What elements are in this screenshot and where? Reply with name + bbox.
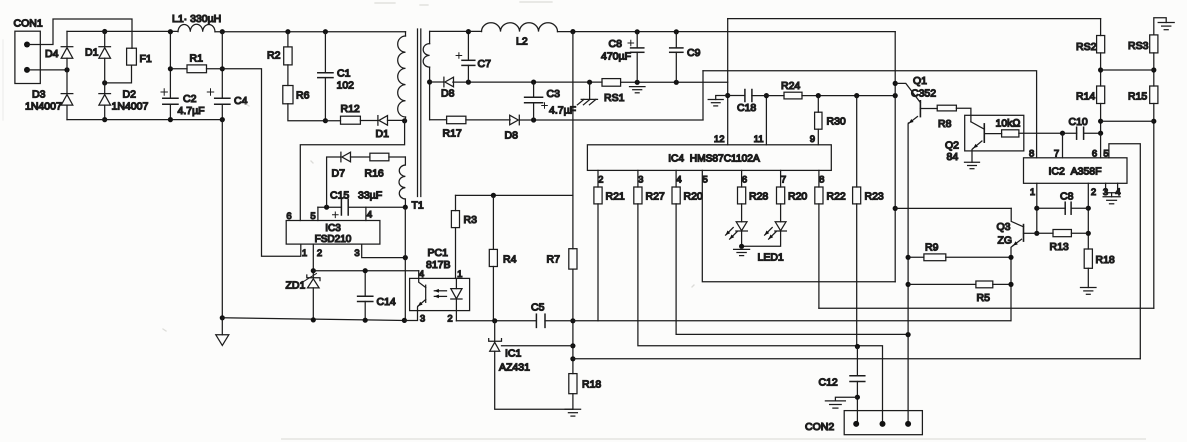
capacitor C1 102: [318, 32, 354, 124]
pin 8 resistor R22: [815, 170, 846, 308]
capacitor C3 4.7uF: [525, 82, 576, 120]
svg-text:R22: R22: [827, 191, 846, 203]
svg-text:C4: C4: [234, 95, 248, 107]
svg-text:C10: C10: [1069, 116, 1088, 128]
svg-text:CON2: CON2: [805, 421, 834, 433]
svg-text:L1· 330µH: L1· 330µH: [172, 13, 221, 25]
IC4 HMS87C1102A: [587, 145, 831, 171]
wire Q3 collector to spine: [895, 207, 1011, 209]
LED1 right: [742, 222, 787, 247]
svg-text:Q3: Q3: [997, 221, 1011, 233]
pin 12 wire IC4: [714, 19, 730, 145]
chassis ground at RS1: [577, 82, 597, 105]
svg-text:C8: C8: [609, 38, 623, 50]
optocoupler PC1 817B: [410, 247, 470, 311]
transistor Q2 84: [945, 122, 1002, 163]
capacitor C15 33uF: [330, 190, 382, 218]
svg-text:R20: R20: [788, 191, 807, 203]
svg-text:3: 3: [638, 175, 643, 186]
resistor R24: [781, 80, 898, 99]
wire secondary top rail: [430, 29, 896, 34]
resistor R18 left: [569, 374, 602, 410]
wire DC bus top: [215, 29, 406, 34]
svg-text:8: 8: [1029, 149, 1034, 160]
wire +5V vertical: [570, 32, 575, 374]
wire bridge bottom rail: [67, 119, 222, 121]
svg-text:D4: D4: [45, 48, 59, 60]
pin 5 wire IC2: [1103, 144, 1140, 359]
capacitor C18: [728, 90, 784, 115]
wire AC top rail: [67, 30, 178, 32]
capacitor C4: [207, 32, 247, 123]
svg-text:3: 3: [420, 314, 425, 325]
pin 7 wire IC2: [1054, 133, 1063, 159]
svg-text:7: 7: [1054, 149, 1059, 160]
capacitor C14: [358, 268, 396, 323]
ground at C12: [825, 397, 857, 408]
PC1 pin3 lead: [404, 311, 425, 325]
pin 7 resistor R20b: [777, 170, 808, 221]
pin 4 resistor R20: [672, 170, 911, 337]
ground below R18 right: [1081, 288, 1097, 295]
svg-text:4.7µF: 4.7µF: [549, 105, 576, 117]
svg-text:FSD210: FSD210: [315, 234, 352, 245]
wire Vcc node C15 line: [318, 205, 408, 210]
wire IC1 ref: [502, 345, 573, 347]
svg-text:T1: T1: [412, 200, 424, 212]
resistor RS2: [1076, 19, 1105, 86]
wire R3 R4 top rail: [456, 193, 573, 198]
ground below R18 left: [565, 409, 581, 416]
svg-text:2: 2: [447, 314, 452, 325]
resistor R5: [906, 281, 1014, 304]
svg-text:R8: R8: [938, 118, 952, 130]
capacitor C8 470uF: [601, 32, 644, 83]
resistor R17: [443, 116, 466, 139]
wire CON1 pin2 to bridge node: [27, 67, 70, 72]
svg-text:C1: C1: [337, 68, 351, 80]
svg-text:4.7µF: 4.7µF: [178, 105, 205, 117]
pin 3 label IC3: [354, 244, 408, 260]
wire pin3 line to CON2: [855, 344, 883, 424]
resistor R23: [853, 96, 884, 348]
resistor R9: [906, 242, 1014, 261]
pin 11 wire IC4: [754, 93, 769, 145]
svg-text:3: 3: [1103, 187, 1108, 198]
svg-text:AZ431: AZ431: [499, 362, 530, 374]
PC1 phototransistor: [418, 285, 426, 310]
PC1 pin2 lead: [447, 311, 456, 325]
svg-text:C12: C12: [819, 377, 838, 389]
resistor R15: [1128, 86, 1158, 308]
ground stub near C18: [708, 96, 728, 106]
diode D2: [99, 83, 149, 122]
svg-text:6: 6: [1092, 149, 1097, 160]
transistor Q3 ZG: [997, 208, 1037, 320]
svg-text:R18: R18: [582, 379, 601, 391]
diode D7: [327, 152, 351, 207]
svg-text:ZD1: ZD1: [286, 280, 306, 292]
svg-text:RS1: RS1: [604, 92, 625, 104]
svg-text:5: 5: [703, 175, 708, 186]
svg-text:4: 4: [676, 175, 681, 186]
svg-text:R23: R23: [865, 191, 884, 203]
svg-text:11: 11: [754, 134, 764, 145]
svg-text:IC1: IC1: [505, 348, 522, 360]
svg-text:R1: R1: [190, 53, 204, 65]
box around Q2: [965, 115, 1024, 151]
transformer T1 aux winding: [399, 157, 405, 207]
svg-text:9: 9: [810, 134, 815, 145]
svg-text:R27: R27: [646, 191, 665, 203]
svg-text:6: 6: [742, 175, 747, 186]
svg-text:C14: C14: [377, 296, 396, 308]
diode D8 lower: [505, 115, 520, 141]
capacitor C5: [531, 302, 545, 328]
pin 2 wire IC2: [1086, 183, 1096, 249]
IC2 A358F: [1024, 158, 1128, 184]
resistor R1: [170, 53, 222, 73]
resistor R4: [489, 195, 516, 320]
wire R17 D8 C3 line: [430, 117, 703, 122]
svg-text:R6: R6: [296, 90, 310, 102]
svg-text:C3: C3: [547, 88, 561, 100]
resistor R30: [815, 96, 846, 130]
svg-text:D3: D3: [32, 89, 46, 101]
svg-text:33µF: 33µF: [358, 190, 382, 202]
ground below LED1: [734, 244, 784, 264]
diode D8 upper: [441, 77, 455, 99]
wire secondary ground rail: [430, 80, 728, 85]
svg-text:2: 2: [317, 248, 322, 259]
svg-text:5: 5: [1103, 149, 1108, 160]
wire CON1 pin1 to F1: [27, 19, 132, 48]
resistor R14: [1076, 86, 1105, 133]
svg-text:D7: D7: [332, 168, 346, 180]
svg-text:IC4 HMS87C1102A: IC4 HMS87C1102A: [668, 154, 760, 165]
ground below Q2: [965, 162, 980, 168]
ground earth triangle: [216, 318, 229, 346]
svg-text:PC1: PC1: [428, 247, 449, 259]
svg-text:C7: C7: [478, 58, 492, 70]
svg-text:ZG: ZG: [998, 235, 1013, 247]
pin 3 resistor R27: [634, 170, 858, 345]
resistor R2: [267, 32, 292, 65]
wire RS2 RS3 junction: [1101, 69, 1154, 71]
svg-text:R7: R7: [547, 254, 561, 266]
inductor L2: [482, 23, 558, 48]
svg-text:R24: R24: [781, 80, 800, 92]
IC3 FSD210: [286, 221, 380, 246]
svg-text:1: 1: [457, 269, 462, 280]
capacitor C12: [819, 347, 865, 424]
capacitor C7: [456, 29, 491, 82]
svg-text:IC2 A358F: IC2 A358F: [1048, 166, 1101, 178]
resistor R8: [937, 105, 971, 130]
PC1 pin4 lead: [419, 269, 426, 288]
svg-text:4: 4: [367, 210, 372, 221]
resistor R16: [351, 153, 406, 179]
svg-text:R5: R5: [977, 292, 991, 304]
svg-text:10kΩ: 10kΩ: [996, 118, 1021, 130]
fuse F1: [127, 48, 152, 65]
svg-text:D1: D1: [376, 128, 390, 140]
svg-text:470µF: 470µF: [601, 51, 631, 63]
svg-text:L2: L2: [516, 36, 528, 48]
transistor Q1 C352: [895, 75, 937, 424]
capacitor C8 comp: [1037, 191, 1089, 215]
transformer T1 primary: [398, 32, 406, 121]
LED1 left: [726, 222, 748, 247]
svg-text:D8: D8: [441, 88, 455, 100]
svg-text:R15: R15: [1128, 91, 1147, 103]
svg-text:C9: C9: [687, 47, 701, 59]
svg-text:6: 6: [286, 211, 291, 222]
wire ground rail to ZD1 area: [222, 318, 404, 321]
svg-text:LED1: LED1: [758, 252, 784, 264]
ground below C8: [630, 87, 646, 93]
wire ZD1 line to PC1 pin4: [313, 270, 418, 272]
wire primary bottom to IC3 pin6 drain: [300, 121, 404, 221]
pin 5 wire IC4 Vdd: [702, 170, 895, 281]
resistor R13: [1037, 230, 1089, 254]
pins 3 4 ground IC2: [1103, 183, 1121, 204]
svg-text:R12: R12: [341, 103, 360, 115]
svg-text:1: 1: [302, 248, 307, 259]
label T1: [412, 200, 424, 212]
svg-text:7: 7: [781, 175, 786, 186]
pin 2 resistor R21: [594, 170, 625, 320]
svg-text:C18: C18: [737, 102, 756, 114]
wire gnd rail A top: [728, 18, 1101, 20]
svg-text:R13: R13: [1050, 241, 1069, 253]
svg-text:R3: R3: [464, 214, 478, 226]
pin 1 wire IC2: [1030, 183, 1040, 236]
PC1 pin1 lead: [457, 269, 462, 280]
svg-text:C5: C5: [531, 302, 545, 314]
svg-text:RS2: RS2: [1076, 41, 1097, 53]
svg-text:R18: R18: [1096, 254, 1115, 266]
svg-text:R30: R30: [827, 116, 846, 128]
svg-text:CON1: CON1: [14, 18, 43, 30]
wire IC2 pin5 line: [573, 358, 1140, 360]
wire R1 node to IC3 pin1: [222, 69, 300, 256]
pin 5 label IC3: [310, 207, 318, 222]
svg-text:R28: R28: [749, 191, 768, 203]
resistor R6: [283, 65, 326, 121]
svg-text:3: 3: [354, 248, 359, 259]
resistor 10k: [996, 118, 1063, 138]
transformer T1 secondary: [423, 31, 432, 119]
wire +5V spine: [893, 32, 898, 282]
inductor L1 330uH: [168, 13, 225, 34]
PC1 light arrows: [434, 289, 446, 298]
diode D3: [25, 70, 73, 120]
pin 9 wire IC4: [810, 129, 819, 145]
svg-text:1N4007: 1N4007: [112, 101, 149, 113]
svg-text:R2: R2: [267, 50, 281, 62]
svg-text:R16: R16: [365, 168, 384, 180]
svg-text:R17: R17: [443, 128, 462, 140]
connector CON2: [805, 411, 922, 435]
svg-text:84: 84: [947, 151, 959, 163]
pin 2 label IC3: [313, 244, 322, 271]
svg-text:Q2: Q2: [945, 140, 959, 152]
svg-text:2: 2: [598, 175, 603, 186]
wire aux bottom ground spine: [402, 207, 407, 323]
resistor RS3: [1128, 18, 1166, 86]
capacitor C2 4.7uF: [161, 32, 205, 123]
svg-text:C352: C352: [911, 88, 936, 100]
resistor R12: [325, 103, 378, 124]
capacitor C10: [1060, 116, 1103, 139]
svg-text:12: 12: [714, 134, 725, 145]
svg-text:817B: 817B: [426, 259, 451, 271]
pin 4 label IC3: [366, 207, 372, 220]
svg-text:5: 5: [310, 211, 315, 222]
svg-text:4: 4: [419, 269, 424, 280]
svg-text:R14: R14: [1076, 91, 1095, 103]
connector CON1: [14, 18, 43, 84]
svg-text:IC3: IC3: [325, 223, 341, 234]
svg-text:1: 1: [1030, 187, 1035, 198]
resistor R18 right: [1084, 249, 1115, 288]
resistor RS1: [602, 79, 625, 104]
PC1 LED: [451, 278, 462, 310]
wire R14 R15 junction: [1101, 120, 1154, 122]
svg-text:D1: D1: [85, 47, 99, 59]
svg-text:C2: C2: [183, 93, 197, 105]
transformer core: [418, 29, 421, 197]
resistor R3: [451, 195, 477, 278]
diode D1 clamp: [376, 116, 408, 140]
svg-text:D8: D8: [505, 130, 519, 142]
svg-text:D2: D2: [123, 89, 137, 101]
pin 6 resistor R28: [738, 170, 769, 221]
wire F1 to bridge node: [102, 65, 131, 85]
svg-text:R21: R21: [606, 191, 625, 203]
svg-text:C15: C15: [330, 190, 349, 202]
svg-text:1N4007: 1N4007: [25, 101, 62, 113]
diode D4: [45, 31, 73, 70]
svg-text:2: 2: [1091, 187, 1096, 198]
svg-text:8: 8: [819, 175, 824, 186]
wire C4 bottom to earth: [220, 120, 225, 321]
svg-text:C8: C8: [1060, 191, 1074, 203]
IC1 AZ431: [489, 321, 573, 410]
pin 6 wire IC2: [1092, 133, 1101, 159]
svg-text:F1: F1: [140, 53, 152, 65]
capacitor C9: [670, 32, 701, 83]
svg-text:Q1: Q1: [913, 75, 927, 87]
zener ZD1: [286, 268, 321, 322]
svg-text:RS3: RS3: [1128, 40, 1149, 52]
svg-text:R20: R20: [684, 191, 703, 203]
svg-text:4: 4: [1115, 187, 1120, 198]
wire line B to IC2 pin8: [703, 71, 1037, 158]
resistor R7: [547, 249, 578, 269]
wire pin8 line to R15: [819, 307, 1154, 309]
svg-text:R9: R9: [925, 242, 939, 254]
svg-text:R4: R4: [503, 254, 517, 266]
wire C5 feedback line: [456, 318, 1011, 323]
ground top right: [1158, 23, 1174, 30]
svg-text:102: 102: [337, 80, 355, 92]
diode D1 bridge: [85, 29, 111, 83]
